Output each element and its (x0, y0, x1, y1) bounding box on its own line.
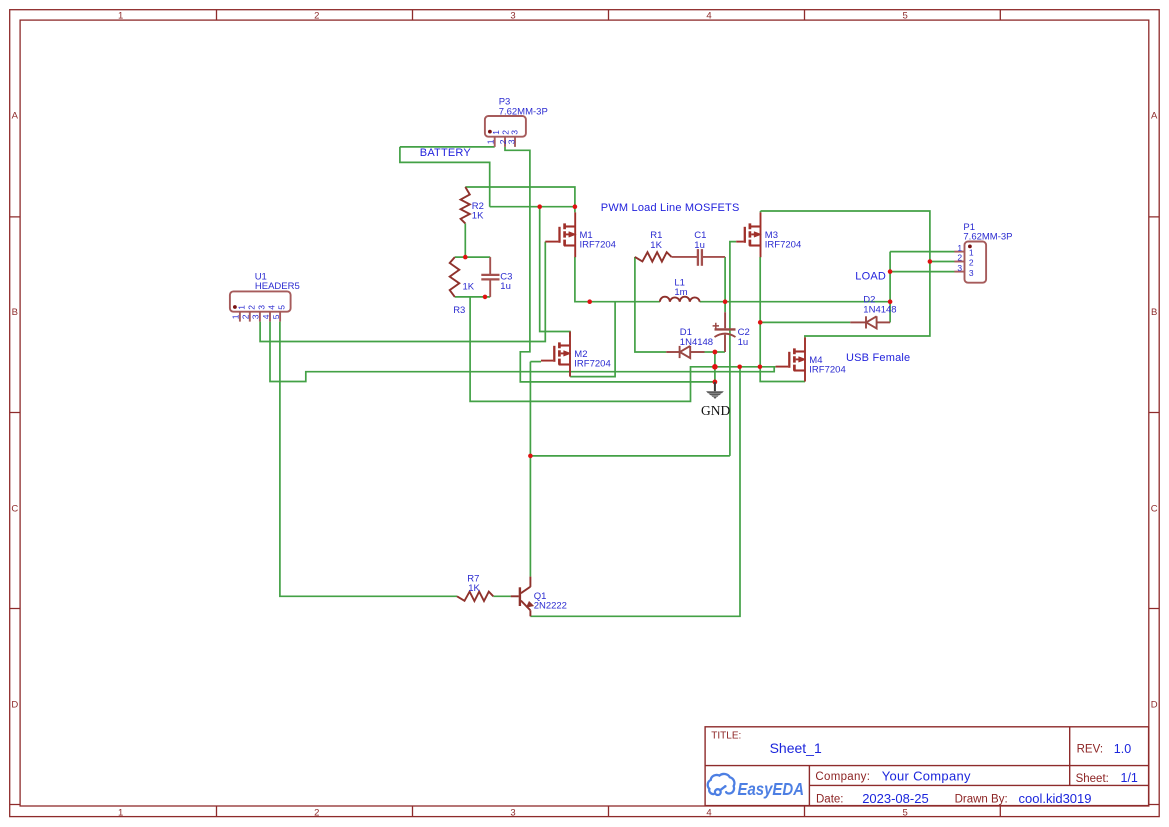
wire rail to L1 (590, 301, 660, 303)
wire M2 gate lead tail (530, 361, 541, 363)
wire P1 pin2 to loop (930, 261, 955, 263)
U1 pin 2 stub (249, 312, 251, 322)
wire M2 gate / Q1 collector column (529, 362, 531, 577)
svg-text:7.62MM-3P: 7.62MM-3P (499, 106, 548, 117)
junction GND battery (713, 380, 718, 385)
svg-text:Drawn By:: Drawn By: (955, 794, 1008, 806)
wire M3 source column (759, 257, 761, 367)
svg-text:1.0: 1.0 (1114, 742, 1131, 756)
svg-text:1: 1 (957, 243, 962, 253)
svg-text:1: 1 (486, 139, 496, 144)
svg-text:2: 2 (969, 258, 974, 268)
U1 pin1 marker (233, 305, 237, 309)
resistor R2 (461, 187, 470, 223)
svg-text:1K: 1K (463, 281, 475, 292)
svg-text:4: 4 (706, 807, 711, 818)
ruler numbers top (118, 11, 908, 22)
MOSFET M4 IRF7204 (776, 337, 806, 381)
wire L1 to P1 column (700, 301, 890, 303)
svg-text:2N2222: 2N2222 (534, 601, 567, 612)
svg-text:3: 3 (506, 139, 516, 144)
wire M3 top loop to M4 drain (761, 211, 930, 337)
svg-text:1N4148: 1N4148 (863, 304, 896, 315)
ruler tick bottom (217, 806, 1001, 817)
P3 pin1 marker (488, 130, 492, 134)
svg-text:R3: R3 (453, 305, 465, 316)
ruler tick right (1149, 217, 1159, 805)
junction M1 drain (573, 204, 578, 209)
wire R2 bottom to RC pair (464, 223, 466, 257)
svg-text:1K: 1K (472, 211, 484, 222)
rev column divider (1069, 727, 1071, 786)
U1 pin 5 stub (279, 312, 281, 322)
ruler numbers bottom (118, 807, 908, 818)
wire C2 bottom link (715, 351, 725, 353)
svg-text:1u: 1u (738, 337, 749, 348)
transistor Q1 2N2222 (511, 577, 534, 617)
svg-text:1K: 1K (650, 240, 662, 251)
wire BATTERY top (P3 pin1) (400, 146, 495, 148)
svg-text:IRF7204: IRF7204 (574, 359, 610, 370)
svg-text:5: 5 (903, 11, 908, 22)
svg-text:B: B (12, 307, 18, 318)
svg-text:A: A (12, 111, 19, 122)
svg-text:4: 4 (267, 305, 277, 310)
P3 pin 1 stub (494, 137, 496, 147)
wire BATTERY loop left (400, 147, 490, 207)
svg-text:C: C (11, 503, 18, 514)
svg-text:3: 3 (251, 314, 261, 319)
ruler tick top (217, 10, 1001, 20)
svg-text:2023-08-25: 2023-08-25 (862, 791, 929, 806)
junction D2 M3 source (758, 320, 763, 325)
P3 pin 2 stub (504, 137, 506, 147)
svg-text:A: A (1151, 111, 1158, 122)
svg-text:cool.kid3019: cool.kid3019 (1019, 791, 1092, 806)
wire P3 pin2 to GND dot (505, 147, 715, 382)
resistor R7 (457, 592, 493, 601)
MOSFET M2 IRF7204 (541, 332, 571, 377)
svg-text:LOAD: LOAD (855, 271, 886, 283)
wire M3 gate column (730, 242, 736, 456)
junction M3 source GND (758, 365, 763, 370)
junction emitter line (737, 365, 742, 370)
logo cell divider (808, 766, 810, 806)
connector U1 HEADER5 (230, 291, 291, 321)
wire D1 right to GND stem dot (705, 351, 715, 353)
diode D1 1N4148 (666, 346, 704, 358)
wire D2 left to M3 source dot (760, 321, 850, 323)
capacitor C2 polarized (713, 312, 736, 352)
svg-text:4: 4 (261, 314, 271, 319)
svg-text:GND: GND (701, 403, 730, 418)
TITLE BLOCK (705, 727, 1149, 806)
P1 pin 2 stub (954, 261, 964, 263)
svg-text:TITLE:: TITLE: (711, 731, 741, 742)
svg-text:USB Female: USB Female (846, 352, 910, 364)
wire P1 pin1 (890, 251, 954, 253)
svg-text:1u: 1u (694, 240, 705, 251)
svg-text:REV:: REV: (1077, 744, 1103, 756)
svg-text:1: 1 (969, 247, 974, 257)
svg-text:5: 5 (903, 807, 908, 818)
svg-text:7.62MM-3P: 7.62MM-3P (963, 231, 1012, 242)
svg-text:2: 2 (314, 11, 319, 22)
svg-text:1m: 1m (674, 287, 687, 298)
svg-text:D: D (11, 700, 18, 711)
wire M1 source to rail (575, 257, 590, 302)
svg-text:3: 3 (510, 11, 515, 22)
capacitor C1 (672, 249, 726, 266)
svg-text:4: 4 (706, 11, 711, 22)
svg-text:5: 5 (277, 305, 287, 310)
wire M3 top pin (760, 211, 762, 212)
svg-text:PWM Load Line MOSFETS: PWM Load Line MOSFETS (601, 202, 740, 214)
junction P1 pin2 loop (928, 259, 933, 264)
U1 pin 4 stub (269, 312, 271, 322)
wire M2 source up to rail (570, 302, 615, 377)
svg-text:B: B (1151, 307, 1157, 318)
wire RC pair top rail (455, 256, 490, 258)
junction GND line (712, 364, 718, 370)
junction battery/M2drain (537, 204, 542, 209)
svg-text:3: 3 (969, 268, 974, 278)
junction R2/R3/C3 top (463, 255, 468, 260)
wire R3 bottom to GND corner (470, 297, 715, 402)
wire R1 left drop to D1 (635, 257, 666, 352)
title block outline (705, 727, 1149, 806)
svg-text:1: 1 (118, 807, 123, 818)
MOSFET M1 IRF7204 (545, 212, 576, 257)
svg-text:EasyEDA: EasyEDA (738, 779, 805, 799)
junction rail P1 column (888, 299, 893, 304)
company/date divider (809, 784, 1148, 786)
title row divider (705, 765, 1149, 767)
wire M1 drain pin (574, 207, 576, 213)
MOSFET M3 IRF7204 (736, 212, 761, 257)
junction D1/C2 (713, 350, 718, 355)
svg-text:IRF7204: IRF7204 (580, 240, 616, 251)
inductor L1 (660, 297, 700, 302)
P1 pin 1 stub (954, 251, 964, 253)
svg-text:2: 2 (314, 807, 319, 818)
wire P1 column (889, 252, 891, 323)
svg-text:3: 3 (256, 305, 266, 310)
svg-text:BATTERY: BATTERY (420, 147, 472, 159)
svg-text:3: 3 (957, 263, 962, 273)
svg-text:D: D (1151, 700, 1158, 711)
U1 pin 3 stub (259, 312, 261, 322)
junction Q1 collector branch (528, 454, 533, 459)
wire Q1 emitter to GND line (530, 367, 740, 617)
junction rail M1 source (587, 299, 592, 304)
resistor R1 (635, 252, 672, 261)
svg-text:1K: 1K (468, 583, 480, 594)
wire Q1 collector to M3 gate branch (530, 455, 730, 457)
wire RC pair bottom rail (455, 296, 490, 298)
junction rail C2 (723, 299, 728, 304)
svg-text:2: 2 (246, 305, 256, 310)
junction R3/C3 bottom (483, 295, 488, 300)
svg-text:HEADER5: HEADER5 (255, 281, 300, 292)
svg-text:Sheet:: Sheet: (1076, 773, 1109, 785)
svg-text:Your Company: Your Company (882, 768, 971, 783)
wire M1 gate to U1 pin3 (260, 242, 545, 342)
ruler letters left (11, 111, 18, 711)
U1 pin 1 stub (239, 312, 241, 322)
svg-text:1: 1 (236, 305, 246, 310)
svg-text:C: C (1151, 503, 1158, 514)
wire GND stem (714, 352, 716, 382)
svg-text:2: 2 (957, 253, 962, 263)
svg-text:1N4148: 1N4148 (680, 337, 713, 348)
svg-text:1u: 1u (500, 281, 511, 292)
capacitor C3 (481, 257, 499, 297)
svg-text:3: 3 (510, 130, 520, 135)
resistor R3 (450, 257, 460, 297)
wire GND to M3 source dot (715, 366, 760, 368)
svg-text:Company:: Company: (815, 771, 870, 783)
junction LOAD (888, 269, 893, 274)
wire U1 pin5 to R7 (280, 322, 457, 597)
svg-text:1: 1 (118, 11, 123, 22)
svg-text:1/1: 1/1 (1121, 771, 1138, 785)
ground symbol GND (706, 382, 724, 399)
wire U1 pin4 to M4 gate (270, 322, 774, 382)
P1 pin1 marker (968, 245, 972, 249)
wire C2 top lead green (724, 302, 726, 313)
wire battery dot to M2 drain (540, 207, 570, 337)
svg-text:1: 1 (231, 314, 241, 319)
wire C1 right drop to rail (724, 257, 726, 302)
diode D2 1N4148 (850, 316, 890, 328)
wire M3 source to M4 source loop (760, 367, 805, 382)
svg-text:2: 2 (241, 314, 251, 319)
svg-text:IRF7204: IRF7204 (765, 240, 801, 251)
svg-text:5: 5 (271, 314, 281, 319)
EasyEDA logo cloud icon (708, 774, 735, 795)
svg-text:Sheet_1: Sheet_1 (770, 740, 822, 756)
wire LOAD to P1 pin3 (890, 271, 954, 273)
wire GND line to M4 gate (760, 366, 776, 368)
P1 pin 3 stub (954, 271, 964, 273)
wire BATTERY rail y207 (490, 206, 575, 208)
svg-text:IRF7204: IRF7204 (809, 365, 845, 376)
svg-text:Date:: Date: (816, 794, 844, 806)
ruler tick left (10, 217, 20, 805)
connector P1 (954, 242, 986, 283)
ruler letters right (1151, 111, 1158, 711)
connector P3 (485, 116, 526, 147)
wire R7 to Q1 base (493, 595, 510, 597)
JUNCTION DOTS (463, 204, 932, 458)
svg-text:3: 3 (510, 807, 515, 818)
P3 pin 3 stub (514, 137, 516, 147)
wire R2 top to M1 drain (465, 187, 575, 207)
